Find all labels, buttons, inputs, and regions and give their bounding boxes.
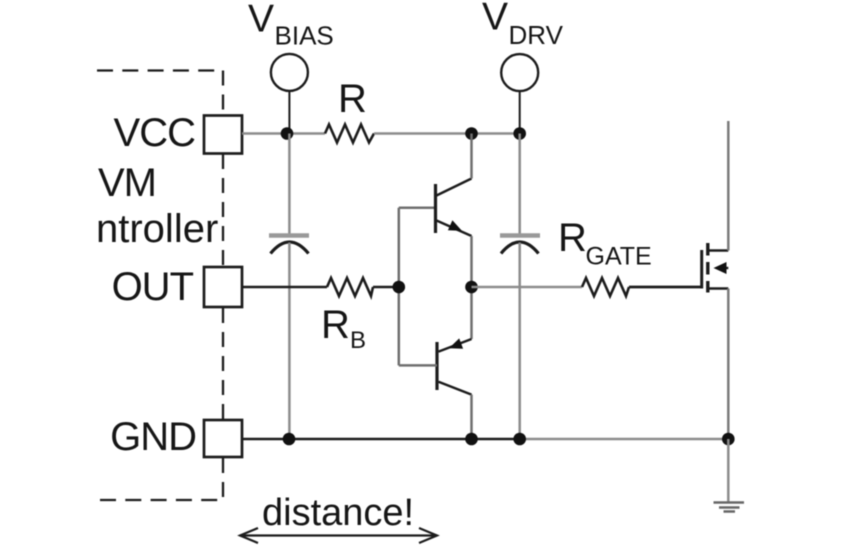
svg-text:R: R bbox=[558, 216, 587, 260]
wire VBIAS node down to capacitor C1 bbox=[288, 134, 291, 237]
pin GND label bbox=[110, 415, 196, 459]
pin VCC square bbox=[204, 116, 242, 154]
resistor RB label bbox=[321, 303, 366, 354]
svg-text:R: R bbox=[338, 77, 367, 121]
wire capacitor C2 to GND rail bbox=[518, 243, 521, 440]
wire VDRV stem bbox=[519, 91, 521, 134]
wire to ground symbol bbox=[727, 439, 730, 502]
capacitor C1 curved plate bbox=[271, 242, 309, 254]
node GND-source junction bbox=[722, 433, 735, 446]
svg-text:GND: GND bbox=[110, 415, 196, 459]
svg-text:R: R bbox=[321, 303, 350, 347]
wire VCC pin to resistor R bbox=[242, 132, 325, 135]
node GND-C1 junction bbox=[283, 433, 296, 446]
wire resistor RGATE to MOSFET gate bbox=[629, 286, 702, 289]
wire VBIAS stem bbox=[288, 91, 290, 134]
node base junction bbox=[393, 281, 406, 294]
transistor Q2 PNP emitter bbox=[439, 287, 472, 352]
supply VBIAS circle bbox=[271, 54, 308, 91]
capacitor C2 curved plate bbox=[501, 242, 539, 254]
transistor Q1 NPN base bar bbox=[434, 184, 437, 233]
MOSFET M1 body arrow bbox=[714, 262, 729, 274]
wire resistor R to VDRV node bbox=[374, 132, 520, 135]
label Controller (cut off, shows ntroller) bbox=[96, 207, 218, 251]
PWM controller dashed box right edge (vertical dashed line) bbox=[222, 71, 224, 501]
wire emitter node to resistor RGATE bbox=[472, 286, 583, 289]
wire VDRV node down to capacitor C2 bbox=[518, 134, 521, 237]
svg-text:V: V bbox=[248, 0, 274, 41]
supply VDRV label bbox=[482, 0, 564, 50]
ground symbol bbox=[714, 503, 745, 512]
MOSFET M1 drain lead up bbox=[727, 121, 730, 251]
supply VBIAS label bbox=[248, 0, 334, 51]
wire GND rail black part bbox=[242, 438, 520, 440]
transistor Q1 NPN emitter bbox=[437, 220, 472, 287]
MOSFET M1 channel segments bbox=[706, 243, 709, 293]
transistor Q2 PNP base lead bbox=[399, 364, 437, 367]
capacitor C2 top plate bbox=[500, 233, 540, 238]
wire GND rail gray part bbox=[520, 438, 728, 441]
resistor RB bbox=[327, 278, 373, 296]
node emitter junction bbox=[465, 281, 478, 294]
svg-text:B: B bbox=[350, 327, 366, 354]
svg-text:VCC: VCC bbox=[114, 111, 196, 155]
pin OUT square bbox=[204, 267, 242, 307]
svg-text:VM: VM bbox=[98, 161, 156, 205]
transistor Q2 PNP base bar bbox=[435, 342, 438, 390]
svg-text:V: V bbox=[482, 0, 508, 39]
transistor Q1 NPN collector bbox=[437, 134, 472, 196]
pin GND square bbox=[204, 420, 242, 457]
node GND-C2 junction bbox=[513, 433, 526, 446]
distance label bbox=[262, 492, 414, 534]
pin OUT label bbox=[112, 265, 194, 309]
svg-text:OUT: OUT bbox=[112, 265, 194, 309]
svg-text:ntroller: ntroller bbox=[96, 207, 218, 251]
supply VDRV circle bbox=[501, 54, 538, 91]
wire base node vertical bbox=[398, 208, 401, 366]
resistor R label bbox=[338, 77, 367, 121]
node GND-collector junction bbox=[465, 433, 478, 446]
resistor R bbox=[325, 125, 374, 143]
pin VCC label bbox=[114, 111, 196, 155]
svg-text:DRV: DRV bbox=[509, 20, 564, 50]
svg-text:GATE: GATE bbox=[586, 243, 652, 271]
MOSFET M1 source lead down bbox=[727, 289, 730, 440]
wire OUT pin to resistor RB bbox=[242, 286, 327, 288]
MOSFET M1 source tap bbox=[708, 287, 729, 289]
node VDRV top junction bbox=[513, 127, 526, 140]
label PWM (cut off, shows VM) bbox=[98, 161, 156, 205]
capacitor C1 top plate bbox=[269, 233, 309, 238]
svg-text:distance!: distance! bbox=[262, 492, 414, 534]
resistor RGATE label bbox=[558, 216, 652, 271]
node collector top junction bbox=[465, 127, 478, 140]
MOSFET M1 gate bar bbox=[700, 250, 703, 289]
wire resistor RB to base node bbox=[373, 286, 399, 288]
wire capacitor C1 to GND rail bbox=[288, 243, 291, 440]
distance arrow bbox=[240, 528, 437, 543]
transistor Q1 NPN base lead bbox=[399, 206, 436, 209]
transistor Q2 PNP collector bbox=[439, 382, 472, 439]
PWM controller dashed box left-bottom edge bbox=[100, 499, 223, 501]
svg-text:BIAS: BIAS bbox=[275, 21, 334, 51]
MOSFET M1 drain tap bbox=[708, 249, 729, 251]
resistor RGATE bbox=[582, 278, 629, 296]
PWM controller dashed box top edge bbox=[97, 69, 223, 71]
node VCC-VBIAS junction bbox=[281, 127, 294, 140]
